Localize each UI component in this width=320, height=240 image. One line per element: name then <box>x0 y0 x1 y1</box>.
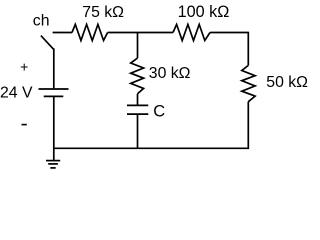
wire: R1 to node A <box>108 32 138 34</box>
label − <box>22 124 27 126</box>
ground: bar 3 <box>50 167 55 169</box>
wire: top-left stub (switch contact to R1) <box>53 32 72 34</box>
svg-text:C: C <box>153 102 165 120</box>
capacitor C: bottom plate <box>127 113 148 115</box>
svg-text:30 kΩ: 30 kΩ <box>149 65 191 82</box>
ground: bar 2 <box>48 163 58 165</box>
wire: R3 to capacitor C <box>137 94 139 106</box>
wire: right branch top (corner down to R4) <box>247 32 249 66</box>
ground: bar 1 <box>46 160 60 162</box>
resistor R4 50 kΩ (vertical zigzag) <box>242 66 255 102</box>
svg-text:+: + <box>20 58 28 74</box>
resistor R3 30 kΩ (vertical zigzag) <box>131 58 144 94</box>
svg-text:ch: ch <box>33 13 50 30</box>
wire: battery − down to ground <box>53 96 55 160</box>
battery 24 V: + plate (long) <box>39 88 69 90</box>
wire: right branch bottom (R4 to bottom rail) <box>247 102 249 149</box>
wire: R2 to top-right corner <box>210 32 248 34</box>
wire: bottom rail <box>54 147 249 149</box>
resistor R2 100 kΩ (zigzag) <box>173 24 210 40</box>
svg-text:75 kΩ: 75 kΩ <box>82 4 124 21</box>
svg-text:50 kΩ: 50 kΩ <box>266 74 308 91</box>
wire: capacitor C to bottom rail <box>137 114 139 148</box>
svg-text:24 V: 24 V <box>0 84 33 101</box>
wire: switch pivot down to battery + <box>53 48 55 88</box>
battery 24 V: − plate (short) <box>44 95 64 97</box>
wire: node A to R2 <box>138 32 174 34</box>
switch ch (open arm) <box>41 36 54 50</box>
wire: middle branch top (node A down to R3) <box>137 33 139 59</box>
capacitor C: top plate <box>127 104 148 106</box>
svg-text:100 kΩ: 100 kΩ <box>178 3 230 21</box>
resistor R1 75 kΩ (zigzag) <box>72 24 108 40</box>
